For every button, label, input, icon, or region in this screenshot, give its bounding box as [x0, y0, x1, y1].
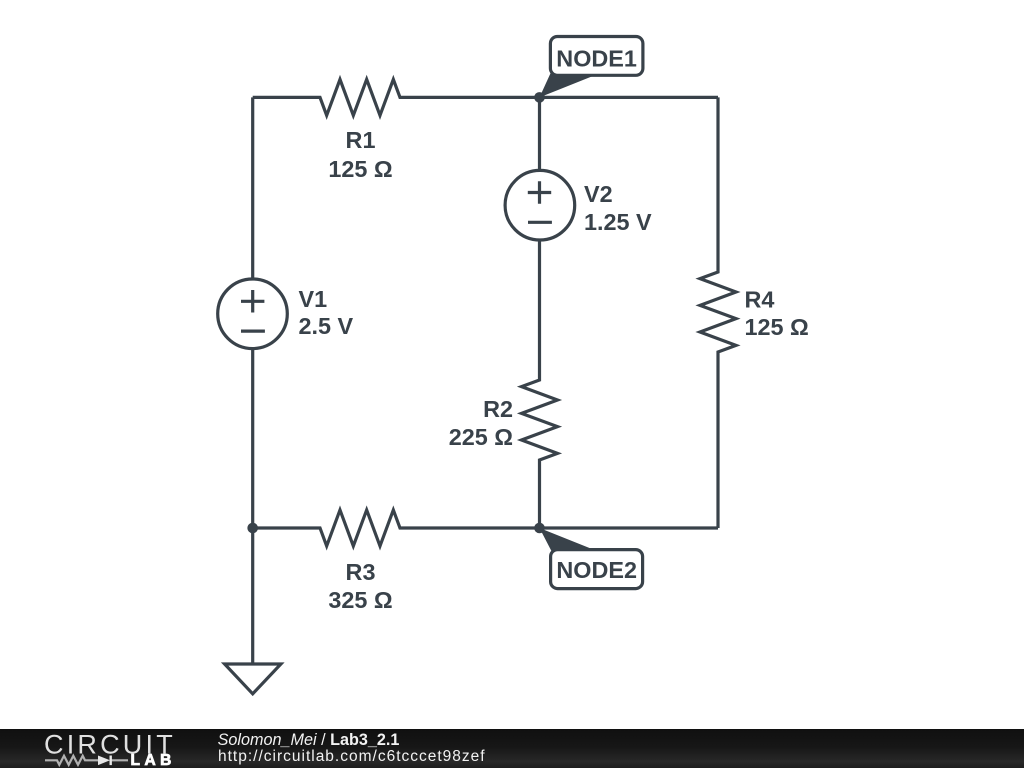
svg-text:125 Ω: 125 Ω — [745, 314, 809, 340]
svg-text:R1: R1 — [346, 127, 376, 153]
svg-text:LAB: LAB — [131, 752, 176, 768]
svg-text:225 Ω: 225 Ω — [449, 424, 513, 450]
svg-text:R4: R4 — [745, 287, 775, 313]
svg-text:1.25 V: 1.25 V — [584, 209, 652, 235]
svg-text:V1: V1 — [299, 286, 328, 312]
svg-text:R2: R2 — [483, 396, 513, 422]
svg-text:2.5 V: 2.5 V — [299, 313, 354, 339]
svg-text:V2: V2 — [584, 181, 613, 207]
svg-text:325 Ω: 325 Ω — [328, 587, 392, 613]
svg-text:R3: R3 — [346, 559, 376, 585]
svg-text:NODE2: NODE2 — [556, 557, 637, 583]
svg-text:NODE1: NODE1 — [556, 46, 637, 72]
svg-text:125 Ω: 125 Ω — [328, 156, 392, 182]
